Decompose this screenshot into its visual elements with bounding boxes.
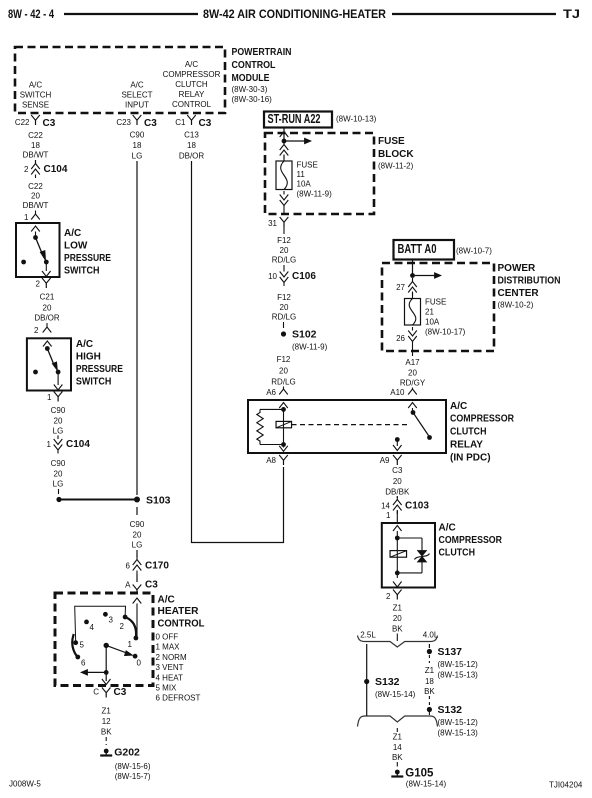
svg-text:20: 20	[280, 246, 289, 255]
svg-text:(8W-15-6): (8W-15-6)	[115, 762, 151, 771]
svg-text:(8W-10-2): (8W-10-2)	[498, 301, 534, 310]
svg-text:DB/OR: DB/OR	[179, 152, 205, 161]
svg-text:10A: 10A	[297, 180, 312, 189]
svg-text:(8W-15-7): (8W-15-7)	[115, 772, 151, 781]
svg-text:C: C	[93, 688, 99, 697]
svg-text:C90: C90	[51, 406, 66, 415]
svg-text:C104: C104	[44, 164, 68, 175]
svg-text:CLUTCH: CLUTCH	[439, 548, 476, 559]
svg-text:6: 6	[126, 562, 131, 571]
svg-text:18: 18	[187, 141, 196, 150]
svg-text:C13: C13	[184, 131, 199, 140]
svg-text:DISTRIBUTION: DISTRIBUTION	[498, 276, 561, 287]
svg-text:14: 14	[381, 502, 390, 511]
svg-text:CONTROL: CONTROL	[172, 100, 212, 109]
svg-text:C3: C3	[43, 118, 56, 129]
svg-text:SWITCH: SWITCH	[64, 266, 100, 277]
svg-text:RELAY: RELAY	[179, 90, 205, 99]
svg-text:8W-42 AIR CONDITIONING-HEATER: 8W-42 AIR CONDITIONING-HEATER	[203, 7, 386, 21]
svg-text:31: 31	[268, 219, 277, 228]
svg-text:18: 18	[425, 677, 434, 686]
svg-text:C3: C3	[145, 580, 158, 591]
svg-text:FUSE: FUSE	[297, 161, 318, 170]
svg-text:C90: C90	[130, 131, 145, 140]
svg-text:(8W-15-12): (8W-15-12)	[438, 718, 479, 727]
svg-text:SENSE: SENSE	[22, 101, 49, 110]
svg-text:18: 18	[133, 141, 142, 150]
svg-text:S132: S132	[438, 704, 463, 716]
svg-text:27: 27	[396, 283, 405, 292]
svg-text:S102: S102	[292, 329, 317, 341]
svg-text:SELECT: SELECT	[121, 91, 152, 100]
svg-text:DB/OR: DB/OR	[34, 314, 60, 323]
svg-text:10: 10	[268, 272, 277, 281]
svg-text:1: 1	[128, 640, 133, 649]
svg-text:2.5L: 2.5L	[360, 631, 376, 640]
svg-text:20: 20	[279, 367, 288, 376]
svg-text:TJ: TJ	[563, 7, 580, 21]
svg-text:Z1: Z1	[393, 604, 403, 613]
svg-text:2: 2	[120, 622, 125, 631]
svg-text:C104: C104	[66, 439, 90, 450]
svg-text:BK: BK	[101, 728, 112, 737]
svg-text:1 MAX: 1 MAX	[156, 643, 181, 652]
svg-text:RD/LG: RD/LG	[271, 378, 295, 387]
svg-text:BK: BK	[424, 687, 435, 696]
svg-text:MODULE: MODULE	[232, 73, 270, 84]
svg-text:POWERTRAIN: POWERTRAIN	[232, 47, 292, 58]
svg-text:2: 2	[386, 592, 391, 601]
svg-text:4 HEAT: 4 HEAT	[156, 673, 184, 682]
svg-text:PRESSURE: PRESSURE	[76, 364, 123, 375]
svg-text:1: 1	[47, 440, 52, 449]
svg-text:COMPRESSOR: COMPRESSOR	[439, 535, 503, 546]
svg-text:2 NORM: 2 NORM	[156, 653, 187, 662]
svg-text:20: 20	[408, 369, 417, 378]
svg-text:C90: C90	[130, 520, 145, 529]
svg-text:A/C: A/C	[185, 60, 199, 69]
svg-text:20: 20	[280, 303, 289, 312]
svg-text:TJI04204: TJI04204	[549, 781, 583, 790]
svg-text:S137: S137	[438, 646, 463, 658]
svg-text:A/C: A/C	[158, 595, 175, 606]
svg-text:(8W-10-17): (8W-10-17)	[425, 328, 466, 337]
svg-text:(8W-15-14): (8W-15-14)	[406, 780, 447, 789]
svg-text:BATT A0: BATT A0	[398, 242, 437, 256]
svg-text:S103: S103	[146, 495, 171, 507]
svg-text:C22: C22	[28, 131, 43, 140]
svg-text:A/C: A/C	[450, 401, 467, 412]
svg-text:1: 1	[386, 511, 391, 520]
svg-text:BK: BK	[392, 625, 403, 634]
svg-text:1: 1	[24, 213, 29, 222]
svg-text:LG: LG	[132, 152, 143, 161]
svg-text:HEATER: HEATER	[158, 606, 200, 617]
svg-text:S132: S132	[375, 676, 400, 688]
svg-text:6: 6	[81, 659, 86, 668]
svg-text:(8W-11-2): (8W-11-2)	[378, 162, 414, 171]
svg-text:8W - 42 - 4: 8W - 42 - 4	[8, 7, 54, 21]
svg-text:PRESSURE: PRESSURE	[64, 253, 111, 264]
svg-text:(8W-15-13): (8W-15-13)	[438, 671, 479, 680]
svg-text:A8: A8	[266, 456, 276, 465]
svg-text:RD/LG: RD/LG	[272, 313, 296, 322]
svg-text:A10: A10	[390, 388, 405, 397]
svg-text:BLOCK: BLOCK	[378, 149, 414, 160]
svg-text:C103: C103	[405, 501, 429, 512]
svg-text:(8W-30-3): (8W-30-3)	[232, 85, 268, 94]
svg-text:A17: A17	[405, 358, 420, 367]
svg-text:1: 1	[47, 393, 52, 402]
svg-text:10A: 10A	[425, 318, 440, 327]
svg-text:C22: C22	[28, 182, 43, 191]
svg-text:LG: LG	[53, 480, 64, 489]
svg-text:CONTROL: CONTROL	[158, 619, 205, 630]
svg-text:2: 2	[24, 165, 29, 174]
svg-text:A: A	[125, 581, 131, 590]
svg-text:F12: F12	[277, 355, 291, 364]
svg-text:G202: G202	[114, 747, 140, 759]
svg-text:20: 20	[31, 192, 40, 201]
svg-text:2: 2	[34, 326, 39, 335]
svg-text:FUSE: FUSE	[425, 298, 446, 307]
svg-text:A/C: A/C	[29, 81, 43, 90]
svg-text:20: 20	[54, 417, 63, 426]
svg-text:CENTER: CENTER	[498, 288, 540, 299]
svg-text:14: 14	[393, 743, 402, 752]
svg-text:C90: C90	[51, 459, 66, 468]
svg-text:HIGH: HIGH	[76, 352, 101, 363]
svg-text:C3: C3	[199, 118, 212, 129]
svg-text:A/C: A/C	[439, 523, 456, 534]
svg-text:ST-RUN A22: ST-RUN A22	[268, 112, 321, 126]
svg-text:C1: C1	[175, 118, 186, 127]
svg-text:21: 21	[425, 308, 434, 317]
svg-text:C170: C170	[145, 561, 169, 572]
svg-text:COMPRESSOR: COMPRESSOR	[450, 414, 515, 425]
svg-text:3 VENT: 3 VENT	[156, 663, 184, 672]
svg-text:C21: C21	[40, 293, 55, 302]
svg-text:A/C: A/C	[76, 339, 93, 350]
svg-text:20: 20	[54, 470, 63, 479]
svg-text:0 OFF: 0 OFF	[156, 633, 179, 642]
svg-text:(8W-10-13): (8W-10-13)	[336, 115, 377, 124]
svg-text:LG: LG	[53, 427, 64, 436]
svg-text:(8W-15-14): (8W-15-14)	[375, 690, 416, 699]
svg-text:CLUTCH: CLUTCH	[175, 80, 208, 89]
svg-text:20: 20	[43, 304, 52, 313]
svg-text:5: 5	[80, 641, 85, 650]
svg-text:6 DEFROST: 6 DEFROST	[156, 694, 201, 703]
svg-text:RD/LG: RD/LG	[272, 256, 296, 265]
svg-text:(IN PDC): (IN PDC)	[450, 453, 491, 464]
svg-text:RELAY: RELAY	[450, 440, 483, 451]
svg-text:CONTROL: CONTROL	[232, 60, 276, 71]
svg-text:A/C: A/C	[130, 81, 144, 90]
svg-text:(8W-15-13): (8W-15-13)	[438, 729, 479, 738]
svg-text:A6: A6	[266, 388, 276, 397]
svg-text:12: 12	[102, 717, 111, 726]
svg-text:F12: F12	[277, 236, 291, 245]
svg-text:C106: C106	[292, 271, 316, 282]
svg-text:COMPRESSOR: COMPRESSOR	[163, 70, 221, 79]
svg-text:DB/BK: DB/BK	[385, 488, 410, 497]
svg-text:DB/WT: DB/WT	[23, 151, 49, 160]
svg-text:0: 0	[137, 659, 142, 668]
svg-text:C3: C3	[114, 687, 127, 698]
svg-text:20: 20	[133, 531, 142, 540]
svg-text:26: 26	[396, 334, 405, 343]
svg-text:SWITCH: SWITCH	[20, 91, 52, 100]
svg-text:(8W-15-12): (8W-15-12)	[438, 660, 479, 669]
svg-text:3: 3	[109, 616, 114, 625]
svg-text:F12: F12	[277, 293, 291, 302]
svg-text:A9: A9	[380, 456, 390, 465]
svg-text:Z1: Z1	[102, 707, 112, 716]
svg-text:C23: C23	[116, 118, 131, 127]
svg-text:(8W-10-7): (8W-10-7)	[456, 247, 492, 256]
svg-text:11: 11	[297, 170, 306, 179]
svg-text:4: 4	[90, 623, 95, 632]
svg-text:C3: C3	[392, 466, 403, 475]
svg-text:LG: LG	[132, 541, 143, 550]
svg-text:(8W-11-9): (8W-11-9)	[292, 343, 328, 352]
svg-text:20: 20	[393, 477, 402, 486]
svg-text:Z1: Z1	[425, 666, 435, 675]
svg-text:18: 18	[31, 141, 40, 150]
svg-text:SWITCH: SWITCH	[76, 377, 112, 388]
svg-text:FUSE: FUSE	[378, 136, 405, 147]
svg-text:G105: G105	[405, 768, 434, 780]
svg-text:C22: C22	[15, 118, 30, 127]
svg-text:Z1: Z1	[393, 733, 403, 742]
svg-text:(8W-11-9): (8W-11-9)	[297, 190, 333, 199]
svg-text:INPUT: INPUT	[125, 101, 149, 110]
svg-text:A/C: A/C	[64, 228, 81, 239]
svg-text:BK: BK	[392, 753, 403, 762]
svg-text:C3: C3	[144, 118, 157, 129]
svg-text:CLUTCH: CLUTCH	[450, 427, 487, 438]
svg-text:DB/WT: DB/WT	[23, 201, 49, 210]
svg-text:RD/GY: RD/GY	[400, 379, 426, 388]
svg-text:LOW: LOW	[64, 241, 88, 252]
svg-text:J008W-5: J008W-5	[9, 780, 41, 789]
svg-text:2: 2	[36, 280, 41, 289]
svg-text:(8W-30-16): (8W-30-16)	[232, 95, 273, 104]
svg-text:20: 20	[393, 614, 402, 623]
svg-text:5 MIX: 5 MIX	[156, 684, 178, 693]
svg-text:POWER: POWER	[498, 263, 537, 274]
